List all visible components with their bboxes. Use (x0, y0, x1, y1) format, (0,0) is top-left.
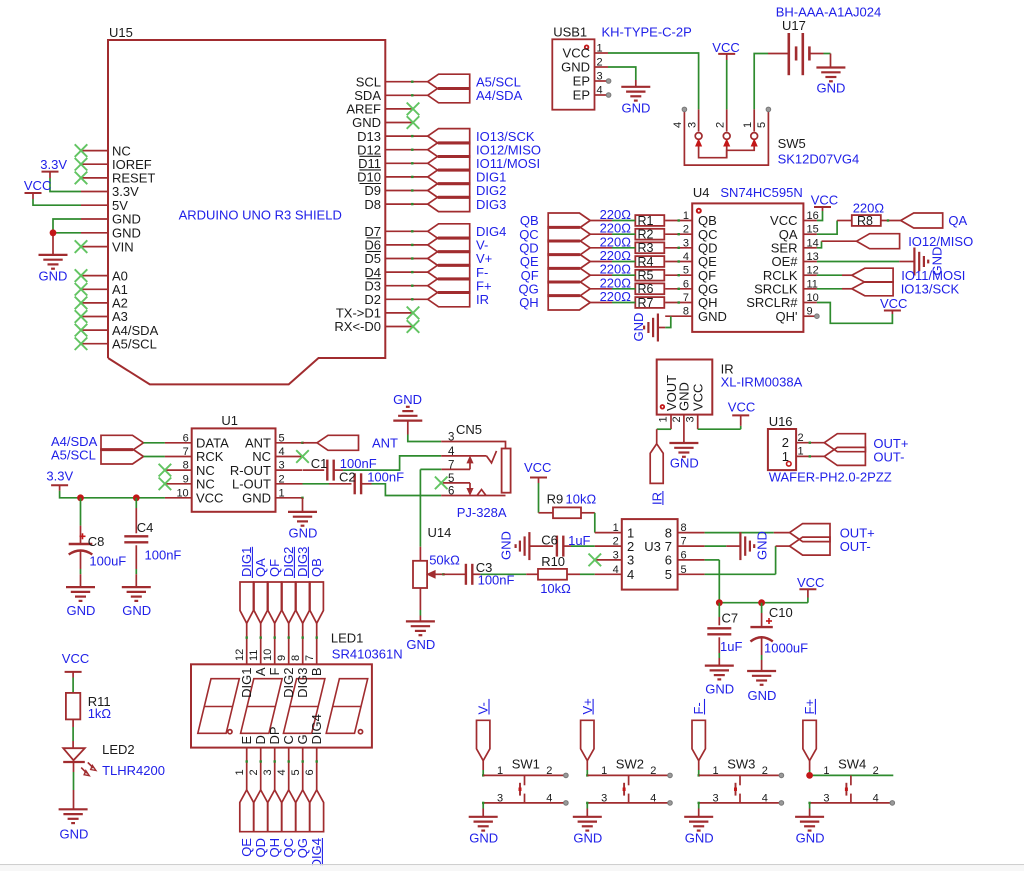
wire SW1 pin3 to ground (482, 802, 484, 817)
svg-text:5: 5 (290, 769, 302, 775)
wire U3 pin8 to OUT+ (705, 532, 790, 534)
U4 right pins 16-9 VCC..QH' (746, 210, 819, 324)
U3 right pins 8-5 (665, 522, 705, 582)
U15 right pins SCL..RX<-D0 (334, 74, 427, 334)
svg-text:2: 2 (683, 224, 689, 236)
svg-text:2: 2 (546, 765, 552, 777)
svg-text:2: 2 (248, 769, 260, 775)
svg-text:1: 1 (613, 522, 619, 534)
canvas bottom border (0, 864, 1024, 871)
audio jack CN5 PJ-328A (441, 422, 510, 520)
svg-text:1: 1 (658, 416, 670, 422)
svg-text:QG: QG (295, 838, 310, 858)
svg-text:GND: GND (796, 830, 825, 845)
svg-text:CN5: CN5 (456, 422, 482, 437)
svg-text:7: 7 (681, 536, 687, 548)
svg-text:4: 4 (683, 251, 689, 263)
svg-text:1000uF: 1000uF (764, 641, 808, 656)
svg-text:QC: QC (281, 838, 296, 858)
resistor R5 220&#937; (600, 262, 665, 283)
svg-text:2: 2 (873, 765, 879, 777)
svg-text:KH-TYPE-C-2P: KH-TYPE-C-2P (602, 25, 692, 40)
wire SW2 pin3 to ground (586, 802, 588, 817)
resistor R1 220&#937; (600, 207, 665, 228)
net flag V+ (push button SW2) (580, 698, 595, 760)
wire QA to LED1 pin 11 (260, 623, 262, 664)
wire IR VOUT to flag (657, 429, 671, 444)
svg-text:VCC: VCC (712, 40, 739, 55)
net flag F- (push button SW3) (691, 699, 706, 761)
net flag A4/SDA (U1 DATA) (101, 435, 144, 450)
battery U17 BH-AAA-A1AJ024 (768, 5, 881, 76)
ground symbol (U14) (406, 621, 435, 652)
net flag A5/SCL (U1 RCK) (101, 449, 144, 464)
ground symbol (SW3) (684, 817, 713, 846)
net flag QH (519, 295, 612, 310)
net labels A5/SCL..IR (476, 74, 541, 307)
svg-text:3: 3 (713, 792, 719, 804)
svg-text:ARDUINO UNO R3 SHIELD: ARDUINO UNO R3 SHIELD (179, 208, 342, 223)
no-connect X U3 pin3 (589, 554, 602, 567)
resistor R4 220&#937; (600, 248, 665, 269)
push button SW4 (810, 757, 894, 805)
svg-text:4: 4 (597, 85, 603, 97)
svg-text:10: 10 (262, 649, 274, 661)
unconnected dot SW2 pin4 (668, 801, 673, 806)
svg-text:1: 1 (497, 765, 503, 777)
wire QD to R3 (612, 247, 665, 249)
wire LED1 pin 6 to DIG4 (316, 748, 318, 790)
svg-text:QF: QF (267, 559, 282, 577)
svg-text:GND: GND (39, 269, 68, 284)
svg-text:LED2: LED2 (102, 742, 135, 757)
ground symbol (U1 GND) (288, 512, 317, 541)
net flag OUT+ (U16) (824, 434, 908, 452)
svg-text:SW3: SW3 (727, 757, 755, 772)
wire A5/SCL to U1 (144, 456, 165, 458)
svg-text:F: F (267, 667, 282, 675)
svg-text:A4/SDA: A4/SDA (476, 88, 523, 103)
power flag VCC (C7/C10 rail) (797, 575, 824, 590)
ground symbol (IR pin2) (669, 443, 698, 471)
svg-text:5: 5 (683, 265, 689, 277)
U3 left pins 1-4 (595, 522, 634, 582)
wire V+ to SW2 pin1 (586, 761, 588, 777)
net flag QE (520, 254, 612, 269)
svg-text:SW5: SW5 (778, 136, 806, 151)
svg-text:R8: R8 (857, 214, 873, 228)
ground symbol (SW4) (795, 817, 824, 846)
wire QC to R2 (612, 233, 665, 235)
net flag QC (519, 227, 612, 242)
svg-text:100nF: 100nF (367, 470, 404, 485)
net flag QA (LED1 top) (253, 558, 268, 623)
LED1 bottom pin numbers (234, 769, 316, 775)
power flag VCC (U4 pin16) (811, 193, 838, 221)
svg-text:DIG3: DIG3 (295, 668, 310, 698)
svg-text:DP: DP (267, 726, 282, 744)
wire QB to LED1 pin 7 (316, 623, 318, 664)
junction dot C7 (716, 599, 723, 606)
svg-text:1: 1 (601, 765, 607, 777)
svg-text:GND: GND (122, 603, 151, 618)
net labels A4/SDA A5/SCL (51, 434, 98, 463)
SW5 pin numbers (672, 122, 768, 128)
svg-text:2: 2 (714, 122, 726, 128)
ground symbol (C10) (747, 671, 776, 703)
svg-text:XL-IRM0038A: XL-IRM0038A (721, 375, 803, 390)
unconnected dot SW1 pin2 (564, 773, 569, 778)
svg-text:1: 1 (823, 765, 829, 777)
net flag QE (LED1 bottom) (239, 790, 254, 857)
unconnected dot SW1 pin4 (564, 801, 569, 806)
wire C1 to CN5 pin4 (343, 456, 441, 470)
svg-text:8: 8 (290, 655, 302, 661)
ground symbol (U4 OE#, rotated) (914, 247, 944, 276)
svg-text:QH': QH' (776, 309, 798, 324)
unconnected dot SW4 pin4 (890, 801, 895, 806)
svg-text:220Ω: 220Ω (853, 200, 885, 215)
svg-text:GND: GND (112, 226, 141, 241)
wire U4 SRCLR# to VCC (817, 303, 893, 324)
connector USB1 KH-TYPE-C-2P body (552, 25, 691, 110)
IC U15 ARDUINO UNO R3 SHIELD body (108, 25, 385, 384)
svg-text:R7: R7 (638, 296, 654, 310)
svg-text:SW1: SW1 (512, 757, 540, 772)
IR receiver module XL-IRM0038A body (657, 360, 803, 415)
wire SW3 pin3 to ground (698, 802, 700, 817)
potentiometer U14 50k (413, 525, 460, 621)
ground symbol (U4 pin8, rotated) (631, 313, 665, 342)
svg-text:R4: R4 (638, 255, 654, 269)
svg-text:2: 2 (650, 765, 656, 777)
svg-text:QE: QE (239, 838, 254, 857)
junction dot C8 tap (77, 494, 84, 501)
unconnected dot SW3 pin2 (779, 773, 784, 778)
capacitor C7 1uF (707, 603, 742, 666)
svg-text:5: 5 (681, 564, 687, 576)
svg-text:QH: QH (519, 295, 539, 310)
svg-text:1: 1 (597, 43, 603, 55)
wire QB to R1 (612, 220, 665, 222)
net flag DIG4 (LED1 bottom) (309, 790, 324, 869)
wire LED1 pin 3 to QH (274, 748, 276, 790)
svg-text:A: A (253, 667, 268, 676)
svg-text:PJ-328A: PJ-328A (457, 505, 507, 520)
svg-text:3: 3 (627, 553, 634, 568)
LED1 top pin numbers (234, 649, 316, 661)
svg-text:GND: GND (755, 531, 770, 560)
svg-text:3.3V: 3.3V (40, 157, 67, 172)
svg-text:VCC: VCC (797, 575, 824, 590)
svg-text:11: 11 (807, 278, 818, 290)
svg-text:R2: R2 (638, 228, 654, 242)
svg-text:3: 3 (686, 122, 698, 128)
svg-text:IR: IR (476, 292, 489, 307)
svg-text:1: 1 (713, 765, 719, 777)
svg-text:3: 3 (823, 792, 829, 804)
svg-text:11: 11 (248, 650, 260, 661)
svg-text:100uF: 100uF (89, 554, 126, 569)
resistor R7 220&#937; (600, 289, 665, 310)
svg-text:VCC: VCC (811, 193, 838, 208)
capacitor C8 100uF (electrolytic) (69, 498, 127, 587)
power flag VCC (U15 5V) (24, 178, 81, 205)
svg-text:3: 3 (497, 792, 503, 804)
svg-text:7: 7 (665, 539, 672, 554)
svg-text:IO13/SCK: IO13/SCK (901, 282, 960, 297)
capacitor C6 1uF (541, 532, 590, 556)
svg-text:4: 4 (276, 769, 288, 775)
net flag QD (LED1 bottom) (253, 790, 268, 858)
svg-text:C6: C6 (541, 532, 558, 547)
wire LED1 pin 1 to QE (246, 748, 248, 790)
wire U1 GND pin1 down (301, 497, 303, 512)
svg-text:1: 1 (742, 122, 754, 128)
svg-text:1: 1 (798, 446, 804, 458)
net flag QF (LED1 top) (267, 559, 282, 623)
wire LED1 pin 5 to QG (302, 748, 304, 790)
wire C2 to CN5 pin6 (372, 484, 442, 496)
power flag VCC (IR) (728, 400, 755, 416)
svg-text:5V: 5V (112, 198, 128, 213)
power flag 3.3V (U1 VCC rail) (46, 469, 73, 491)
svg-text:2: 2 (671, 416, 683, 422)
net flag QH (LED1 bottom) (267, 790, 282, 858)
svg-text:4: 4 (650, 792, 656, 804)
svg-text:3: 3 (597, 71, 603, 83)
net flag QB (LED1 top) (309, 558, 324, 623)
svg-text:1: 1 (683, 210, 689, 222)
resistor R6 220&#937; (600, 275, 665, 296)
svg-text:9: 9 (807, 306, 813, 318)
junction dot C10 (758, 599, 765, 606)
power flag VCC (R9) (524, 460, 551, 483)
svg-text:6: 6 (665, 553, 672, 568)
unconnected pin dots USB1 EP (606, 79, 611, 98)
wire LED1 pin 2 to QD (260, 748, 262, 790)
svg-text:VCC: VCC (24, 178, 51, 193)
capacitor C3 100nF (442, 560, 514, 588)
wire IR VCC (698, 415, 741, 429)
svg-text:R10: R10 (541, 554, 565, 569)
svg-text:QB: QB (309, 558, 324, 577)
svg-text:C4: C4 (137, 520, 154, 535)
svg-text:GND: GND (242, 491, 271, 506)
svg-text:8: 8 (183, 460, 189, 472)
unconnected dot SW2 pin2 (668, 773, 673, 778)
push button SW3 (699, 757, 782, 805)
LED1 seven-segment digits (198, 679, 368, 734)
svg-text:3: 3 (613, 549, 619, 561)
svg-text:1: 1 (234, 769, 246, 775)
svg-text:WAFER-PH2.0-2PZZ: WAFER-PH2.0-2PZZ (769, 470, 892, 485)
svg-text:4: 4 (613, 564, 619, 576)
svg-text:D: D (253, 735, 268, 744)
svg-text:VCC: VCC (691, 384, 706, 411)
svg-text:12: 12 (234, 649, 246, 661)
svg-text:F+: F+ (802, 699, 817, 715)
svg-text:GND: GND (573, 830, 602, 845)
svg-text:C: C (281, 735, 296, 744)
svg-text:D8: D8 (364, 197, 381, 212)
unconnected dot SW3 pin4 (779, 801, 784, 806)
net flag IO13/SCK (852, 282, 960, 297)
svg-text:3: 3 (262, 769, 274, 775)
svg-text:U15: U15 (109, 25, 133, 40)
svg-text:GND: GND (622, 101, 651, 116)
ground symbol (LED2) (59, 809, 89, 841)
svg-text:VCC: VCC (880, 296, 907, 311)
wire R9 to U3 pin1 (594, 513, 596, 533)
svg-text:E: E (239, 736, 254, 745)
svg-text:C1: C1 (311, 456, 328, 471)
IR module pins (658, 415, 698, 443)
svg-text:4: 4 (546, 792, 552, 804)
net flag F+ (push button SW4) (802, 699, 817, 761)
ground symbol (C6, rotated) (499, 531, 554, 560)
wire C6 to U3 pin2 (571, 545, 595, 547)
svg-text:4: 4 (672, 122, 684, 128)
svg-text:GND: GND (698, 309, 727, 324)
wire A4/SDA to U1 (144, 442, 165, 444)
wire U15 GND pins to ground (53, 219, 81, 255)
svg-text:GND: GND (685, 830, 714, 845)
svg-text:10: 10 (176, 487, 188, 499)
svg-text:4: 4 (762, 792, 768, 804)
power flag VCC (U4 SRCLR#) (880, 296, 907, 311)
wire USB1 GND (608, 67, 636, 87)
net flag QG (LED1 bottom) (295, 790, 310, 858)
svg-text:LED1: LED1 (331, 630, 364, 645)
LED LED2 TLHR4200 (63, 719, 165, 809)
svg-text:VCC: VCC (62, 651, 89, 666)
wire VCC rail C7 C10 (719, 589, 808, 603)
wire QF to LED1 pin 10 (274, 623, 276, 664)
svg-text:A5/SCL: A5/SCL (112, 336, 157, 351)
svg-text:9: 9 (183, 473, 189, 485)
net flag IR (vertical) (650, 444, 665, 505)
net flag V- (push button SW1) (476, 699, 491, 761)
wire U4 SRCLK (817, 288, 852, 290)
svg-text:3: 3 (601, 792, 607, 804)
svg-text:GND: GND (748, 688, 777, 703)
svg-text:RX<-D0: RX<-D0 (334, 319, 381, 334)
ground symbol (SW2) (573, 817, 602, 846)
svg-text:3: 3 (279, 460, 285, 472)
svg-text:2: 2 (597, 57, 603, 69)
svg-text:QA: QA (253, 558, 268, 577)
USB1 pins 1-4 (561, 43, 608, 103)
no-connect X CN5 pin5 (435, 477, 448, 490)
wire USB1 VCC to SW5 pin3 (608, 53, 699, 109)
svg-text:VCC: VCC (563, 46, 590, 61)
net flag QG (518, 281, 612, 296)
svg-text:2: 2 (279, 473, 285, 485)
resistor R3 220&#937; (600, 234, 665, 255)
svg-text:U1: U1 (221, 413, 238, 428)
svg-text:C10: C10 (769, 605, 793, 620)
svg-text:DIG3: DIG3 (476, 197, 506, 212)
svg-text:3: 3 (683, 237, 689, 249)
wire QG to R6 (612, 288, 665, 290)
unconnected dots SW5 pins 4,5 (682, 107, 771, 112)
svg-text:EP: EP (573, 74, 590, 89)
wire F- to SW3 pin1 (698, 761, 700, 777)
svg-text:3.3V: 3.3V (46, 469, 73, 484)
svg-text:GND: GND (670, 456, 699, 471)
wire U4 OE# to ground (817, 261, 915, 263)
svg-text:G: G (295, 734, 310, 744)
svg-text:DIG4: DIG4 (309, 714, 324, 744)
svg-text:10kΩ: 10kΩ (540, 581, 571, 596)
svg-text:QA: QA (948, 213, 967, 228)
ground symbol (C8) (66, 587, 95, 618)
resistor R11 1k (66, 693, 112, 748)
power flag 3.3V (U15) (40, 157, 81, 192)
net flag QC (LED1 bottom) (281, 790, 296, 858)
svg-text:1kΩ: 1kΩ (88, 706, 112, 721)
junction dot U15 GND (50, 229, 57, 236)
ground symbol (USB1) (621, 87, 650, 116)
wire DIG2 to LED1 pin 9 (288, 623, 290, 664)
capacitor C2 100nF (303, 470, 405, 495)
svg-text:9: 9 (276, 655, 288, 661)
svg-text:10kΩ: 10kΩ (566, 491, 597, 506)
wire U3 pin5 to OUT- (705, 546, 790, 574)
svg-text:EP: EP (573, 88, 590, 103)
wire U4 pin8 GND (665, 316, 671, 327)
svg-text:5: 5 (279, 432, 285, 444)
svg-text:GND: GND (393, 392, 422, 407)
LED1 bottom pin names (239, 714, 324, 744)
net flag QB (520, 213, 612, 228)
svg-text:5: 5 (665, 567, 672, 582)
svg-text:VIN: VIN (112, 239, 134, 254)
svg-text:5: 5 (756, 122, 768, 128)
svg-text:100nF: 100nF (145, 548, 182, 563)
svg-text:SR410361N: SR410361N (332, 646, 403, 661)
capacitor C4 100nF (124, 498, 181, 587)
wire F+ to SW4 pin1 (808, 761, 810, 777)
wire VCC to R9 (538, 483, 540, 513)
wire battery+ to SW5 pin1 (754, 54, 768, 110)
svg-text:2: 2 (798, 432, 804, 444)
svg-text:SK12D07VG4: SK12D07VG4 (778, 152, 860, 167)
svg-text:VCC: VCC (196, 491, 223, 506)
svg-text:2: 2 (762, 765, 768, 777)
push button SW1 (483, 757, 566, 805)
U16 pins (796, 432, 824, 458)
svg-text:3: 3 (685, 416, 697, 422)
IC U4 SN74HC595N body (692, 185, 803, 332)
svg-text:7: 7 (683, 292, 689, 304)
no-connect X marks on U15 right pins (407, 103, 420, 333)
U1 left pins 6-10 (165, 432, 229, 505)
U15 left pins NC..A5/SCL (81, 143, 159, 351)
svg-text:USB1: USB1 (553, 25, 587, 40)
svg-text:GND: GND (469, 830, 498, 845)
svg-text:GND: GND (67, 603, 96, 618)
svg-text:OUT-: OUT- (873, 449, 904, 464)
wire 3.3V rail to U1 VCC (60, 491, 165, 498)
wire V- to SW1 pin1 (482, 761, 484, 777)
resistor R8 220&#937; (852, 200, 901, 227)
svg-text:QH: QH (267, 838, 282, 858)
svg-text:50kΩ: 50kΩ (429, 553, 460, 568)
svg-text:L-OUT: L-OUT (232, 477, 271, 492)
resistor R10 10k (526, 554, 580, 596)
